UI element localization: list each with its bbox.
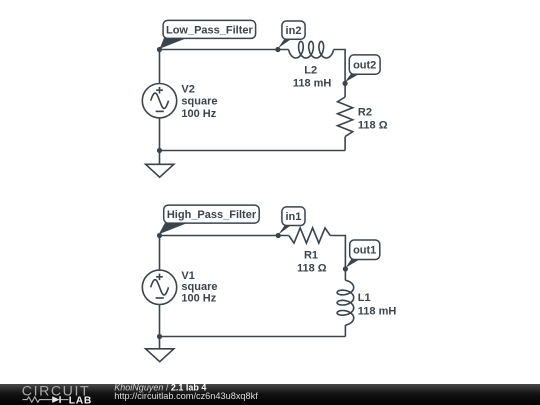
wire top rail (bottom circuit) bbox=[160, 235, 289, 237]
wire R1 right lead to corner bbox=[330, 236, 345, 281]
wire bottom rail (bottom circuit) bbox=[160, 336, 346, 338]
V1 sine waveform bbox=[151, 280, 169, 295]
svg-text:118 mH: 118 mH bbox=[358, 305, 397, 317]
wire L2 right lead to corner bbox=[334, 50, 346, 98]
node label box out1 bbox=[350, 240, 380, 260]
callout pointer Low_Pass_Filter bbox=[160, 38, 187, 49]
voltage source V2 bbox=[142, 84, 176, 118]
V1 minus sign bbox=[156, 297, 164, 299]
node bottom junction dot (bottom circuit) bbox=[157, 334, 162, 339]
svg-text:Low_Pass_Filter: Low_Pass_Filter bbox=[166, 24, 254, 36]
wire V1 minus to bottom rail and ground bbox=[159, 304, 161, 349]
node B junction dot bbox=[157, 233, 162, 238]
svg-text:in1: in1 bbox=[285, 211, 301, 223]
node label box in2 bbox=[282, 21, 305, 39]
resistor R2 bbox=[338, 97, 353, 137]
callout pointer out2 bbox=[345, 74, 360, 82]
V1 plus sign bbox=[156, 274, 163, 281]
node out2 junction dot bbox=[343, 81, 348, 86]
svg-text:out2: out2 bbox=[353, 60, 376, 72]
svg-text:118 Ω: 118 Ω bbox=[297, 263, 327, 275]
svg-text:118 Ω: 118 Ω bbox=[358, 119, 388, 131]
svg-text:square: square bbox=[181, 96, 217, 108]
wire R2 bottom lead bbox=[344, 137, 346, 151]
svg-text:in2: in2 bbox=[286, 25, 302, 37]
svg-text:100 Hz: 100 Hz bbox=[181, 108, 216, 120]
resistor R1 bbox=[289, 228, 330, 243]
svg-text:L1: L1 bbox=[358, 292, 371, 304]
callout pointer in1 bbox=[279, 225, 292, 234]
wire V2 minus to bottom rail and ground bbox=[159, 118, 161, 165]
callout pointer out1 bbox=[346, 259, 360, 268]
inductor L1 bbox=[337, 280, 354, 325]
svg-text:R2: R2 bbox=[358, 107, 372, 119]
svg-text:High_Pass_Filter: High_Pass_Filter bbox=[167, 209, 257, 221]
svg-text:out1: out1 bbox=[353, 245, 376, 257]
svg-text:LAB: LAB bbox=[69, 395, 92, 405]
footer bar bbox=[0, 384, 540, 405]
wire L1 bottom lead bbox=[344, 325, 346, 337]
wire left rail upper (bottom circuit) bbox=[159, 236, 161, 271]
V2 plus sign bbox=[156, 87, 163, 94]
svg-text:L2: L2 bbox=[304, 65, 317, 77]
node label box Low_Pass_Filter bbox=[163, 20, 256, 38]
node bottom junction dot (top circuit) bbox=[157, 148, 162, 153]
logo wire after diode bbox=[61, 399, 69, 401]
svg-text:V1: V1 bbox=[181, 270, 194, 282]
logo resistor zigzag bbox=[23, 397, 44, 402]
ground (top circuit) bbox=[146, 164, 174, 177]
logo diode symbol bbox=[52, 396, 59, 403]
svg-text:V2: V2 bbox=[181, 84, 194, 96]
callout pointer in2 bbox=[278, 39, 292, 48]
inductor L2 bbox=[289, 41, 334, 58]
node label box out2 bbox=[349, 55, 380, 74]
V2 sine waveform bbox=[151, 93, 169, 108]
svg-text:http://circuitlab.com/cz6n43u8: http://circuitlab.com/cz6n43u8xq8kf bbox=[114, 391, 258, 401]
logo wire to diode bbox=[44, 399, 53, 401]
node label box in1 bbox=[282, 207, 305, 226]
voltage source V1 bbox=[142, 270, 176, 304]
wire top rail (node A to in2 to L2) bbox=[160, 49, 289, 51]
node A junction dot bbox=[157, 47, 162, 52]
node in2 junction dot bbox=[275, 47, 280, 52]
node out1 junction dot bbox=[343, 266, 348, 271]
node label box High_Pass_Filter bbox=[164, 205, 260, 223]
callout pointer High_Pass_Filter bbox=[159, 223, 188, 235]
svg-text:square: square bbox=[181, 281, 217, 293]
svg-text:100 Hz: 100 Hz bbox=[181, 293, 216, 305]
wire bottom rail (top circuit) bbox=[160, 150, 346, 152]
node in1 junction dot bbox=[276, 233, 281, 238]
wire left rail upper (node A to V2 plus) bbox=[159, 50, 161, 85]
V2 minus sign bbox=[156, 110, 164, 112]
svg-text:118 mH: 118 mH bbox=[293, 77, 332, 89]
svg-text:R1: R1 bbox=[304, 250, 318, 262]
ground (bottom circuit) bbox=[146, 349, 174, 362]
